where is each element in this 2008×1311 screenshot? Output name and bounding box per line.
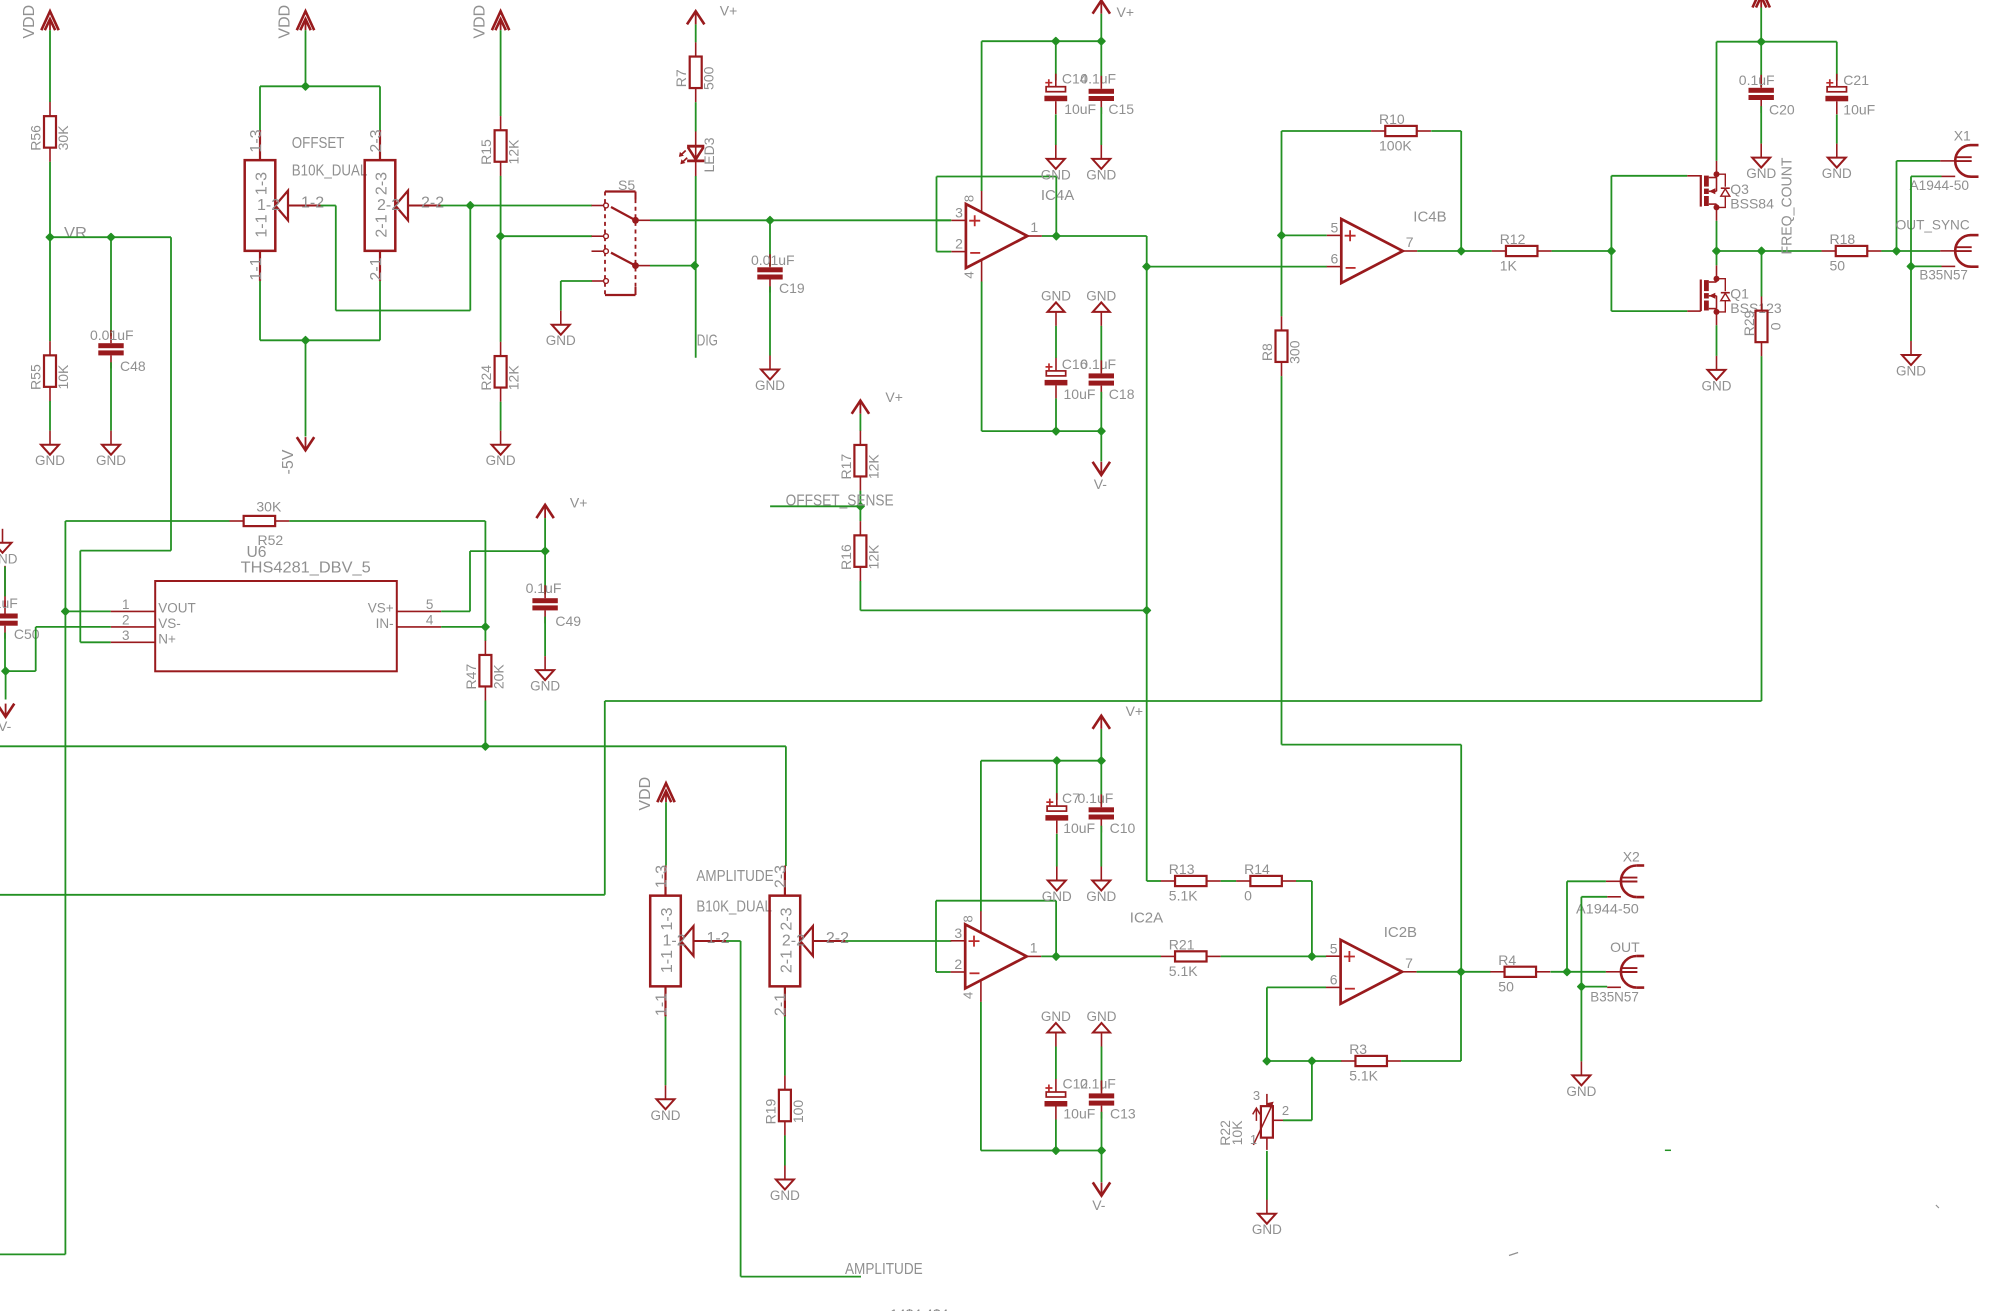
name label C13 <box>1110 1105 1136 1121</box>
part label B10K_DUAL (offset) <box>292 163 368 180</box>
part label A1944-50 (X2) <box>1576 901 1639 917</box>
wire output down to pin6 level <box>1146 236 1148 267</box>
svg-text:AMPLITUDE: AMPLITUDE <box>845 1261 923 1278</box>
resistor R47 20K <box>463 641 507 701</box>
svg-text:1-2: 1-2 <box>301 195 324 212</box>
svg-text:V+: V+ <box>1126 703 1144 719</box>
capacitor C19 0.01uF <box>757 254 782 292</box>
svg-text:30K: 30K <box>55 125 71 151</box>
junction X2 shields <box>1578 983 1585 990</box>
svg-text:R4: R4 <box>1498 952 1516 968</box>
wire to IC4B pin6 <box>1147 266 1327 268</box>
ground below C7 <box>1042 867 1072 905</box>
svg-text:1-3: 1-3 <box>659 907 676 930</box>
resistor R10 100K <box>1371 111 1431 154</box>
svg-text:DIG: DIG <box>697 333 718 350</box>
net label VR <box>64 225 87 242</box>
junction MOSFET gates <box>1608 247 1615 254</box>
svg-text:30K: 30K <box>256 499 282 515</box>
svg-text:2: 2 <box>955 236 963 252</box>
wire X2 lower shield <box>1581 986 1607 988</box>
wire R52 right <box>289 521 485 627</box>
svg-text:GND: GND <box>1896 364 1926 379</box>
wire C15 top <box>1100 41 1102 82</box>
wire IC4A pin4 down <box>982 282 1102 432</box>
svg-text:V+: V+ <box>885 389 903 405</box>
value label 0.01uF (C48) <box>90 327 134 343</box>
wire Q1 source to GND <box>1716 325 1718 356</box>
wire R47 to rail <box>484 701 486 747</box>
svg-text:GND: GND <box>0 551 18 566</box>
wire R10 to output column <box>1431 131 1461 251</box>
wire rail to pot2 top <box>379 86 381 130</box>
svg-text:R55: R55 <box>28 364 44 390</box>
svg-text:OFFSET_SENSE: OFFSET_SENSE <box>786 493 894 510</box>
resistor R12 1K <box>1492 231 1552 274</box>
svg-text:R8: R8 <box>1259 343 1275 361</box>
wire IC4A output <box>1042 235 1147 237</box>
wire S5 pole1 to IC4A pin3 <box>650 219 951 221</box>
part label B10K_DUAL (amplitude) <box>696 899 772 916</box>
wire VR node to C48 and right <box>50 236 171 238</box>
net label OUT <box>1610 939 1640 955</box>
junction VDD rail <box>1758 38 1765 45</box>
name label C18 <box>1109 386 1135 402</box>
part label A1944-50 (X1) <box>1910 177 1970 193</box>
svg-text:2-2: 2-2 <box>421 195 444 212</box>
svg-text:GND: GND <box>486 453 516 468</box>
wire sense to R16 <box>859 506 861 521</box>
wire U6 VS+ to V+ node <box>441 551 545 611</box>
svg-text:7: 7 <box>1406 234 1414 250</box>
wire pot2 bottom to R19 <box>784 1016 786 1075</box>
wire node to R29 node <box>1717 250 1762 252</box>
svg-text:R16: R16 <box>838 544 854 570</box>
svg-text:GND: GND <box>1702 378 1732 393</box>
resistor R7 500 <box>673 42 717 102</box>
svg-text:12K: 12K <box>506 139 522 165</box>
value label 0.1uF (C18) <box>1080 356 1116 372</box>
svg-text:X1: X1 <box>1954 128 1971 144</box>
IC U6 THS4281_DBV_5 <box>111 544 441 671</box>
svg-text:GND: GND <box>1087 1009 1117 1024</box>
connector X1 lower jack <box>1940 235 1978 267</box>
svg-text:6: 6 <box>1330 971 1338 987</box>
svg-text:GND: GND <box>1042 889 1072 904</box>
wire rail to V- <box>1100 431 1102 461</box>
svg-text:5.1K: 5.1K <box>1169 888 1198 904</box>
svg-text:Q1: Q1 <box>1730 285 1749 301</box>
wire IC2B pin6 <box>1267 986 1326 988</box>
wire node to Q1 drain <box>1716 251 1718 265</box>
svg-text:12K: 12K <box>506 365 522 391</box>
transistor Q3 BSS84 (P-MOSFET) <box>1687 161 1774 221</box>
svg-text:12K: 12K <box>865 454 881 480</box>
capacitor C10 0.1uF <box>1089 794 1114 832</box>
wire C20 to GND <box>1760 106 1762 143</box>
artifact green dash <box>1665 1149 1671 1151</box>
name label C14 <box>1062 70 1088 86</box>
svg-text:8: 8 <box>961 915 976 922</box>
svg-text:GND: GND <box>96 453 126 468</box>
wire node to R18 <box>1762 250 1822 252</box>
connector X2 lower jack (OUT) <box>1606 956 1644 988</box>
ground below C15 <box>1086 145 1116 183</box>
svg-text:C15: C15 <box>1108 101 1134 117</box>
svg-text:R10: R10 <box>1379 111 1405 127</box>
junction IC4B pin5 / R8 / R10 <box>1278 232 1285 239</box>
wire output to R12 <box>1461 250 1492 252</box>
svg-text:V+: V+ <box>570 495 588 511</box>
ground below R55 <box>35 431 65 469</box>
net label AMPLITUDE (pots) <box>696 868 773 885</box>
svg-text:C13: C13 <box>1110 1105 1136 1121</box>
svg-text:1: 1 <box>1030 219 1038 235</box>
wire X1 upper shield <box>1911 175 1942 177</box>
svg-text:GND: GND <box>1746 166 1776 181</box>
wire C15 to GND <box>1100 107 1102 145</box>
wire V+ stem <box>1100 14 1102 42</box>
wire VDD rail <box>1717 41 1837 43</box>
wire rail to pot1 top <box>259 86 261 130</box>
ground below C21 <box>1822 144 1852 182</box>
capacitor C48 0.01uF <box>98 330 123 368</box>
junction X1 shields <box>1907 263 1914 270</box>
name label C19 <box>779 280 805 296</box>
svg-text:VR: VR <box>64 225 87 242</box>
wire C13 to rail <box>1101 1112 1103 1151</box>
wire IC2A V+ rail <box>981 760 1101 762</box>
name label C10 <box>1110 820 1136 836</box>
wire C18 to rail <box>1100 392 1102 431</box>
svg-text:10uF: 10uF <box>1843 102 1875 118</box>
wire R7 to LED3 <box>695 102 697 131</box>
svg-text:GND: GND <box>1252 1222 1282 1237</box>
svg-text:THS4281_DBV_5: THS4281_DBV_5 <box>241 559 371 576</box>
power V- arrow (IC4A) <box>1093 462 1110 492</box>
junction MOSFET output node <box>1713 247 1720 254</box>
net label OFFSET_SENSE <box>786 493 894 510</box>
svg-text:R47: R47 <box>463 664 479 690</box>
svg-text:1-2: 1-2 <box>663 932 686 949</box>
svg-text:5: 5 <box>1330 940 1338 956</box>
wire gnd to C16 <box>1055 326 1057 358</box>
svg-text:GND: GND <box>770 1188 800 1203</box>
wire R13 to R14 <box>1221 880 1237 882</box>
svg-text:R56: R56 <box>28 125 44 151</box>
ground below X2 <box>1566 1061 1596 1099</box>
resistor R3 5.1K <box>1341 1041 1401 1084</box>
svg-text:BSS84: BSS84 <box>1730 196 1774 212</box>
svg-text:A1944-50: A1944-50 <box>1576 901 1639 917</box>
artifact cut text bottom <box>890 1306 949 1311</box>
wire Q3 source to node <box>1716 221 1718 251</box>
svg-text:GND: GND <box>530 679 560 694</box>
svg-text:50: 50 <box>1830 258 1846 274</box>
svg-text:GND: GND <box>1086 167 1116 182</box>
value label 0.1uF (C10) <box>1078 790 1114 806</box>
wire R10 loop up <box>1282 131 1372 235</box>
svg-text:1-1: 1-1 <box>248 257 265 280</box>
wire X1 shield to GND <box>1910 266 1912 341</box>
op-amp IC4A <box>951 187 1074 282</box>
junction IC4A output <box>1053 232 1060 239</box>
wire R8 bottom long L <box>1282 376 1462 972</box>
junction offset pots top rail <box>302 83 309 90</box>
svg-text:100K: 100K <box>1379 138 1412 154</box>
junction V+/C49 <box>541 547 548 554</box>
wire VR to R55 <box>49 237 51 341</box>
junction at R29 <box>1758 247 1765 254</box>
wire junction down to R8 <box>1281 235 1283 316</box>
wire gnd to C18 <box>1100 326 1102 370</box>
svg-text:2: 2 <box>1282 1103 1289 1118</box>
svg-text:C48: C48 <box>120 358 146 374</box>
wire X1 lower shield <box>1911 265 1942 267</box>
svg-text:V-: V- <box>1094 476 1108 492</box>
wire R4 to X2 <box>1551 971 1606 973</box>
name label C50 <box>14 626 40 642</box>
wire VDD to R56 <box>49 30 51 102</box>
svg-text:3: 3 <box>1253 1088 1260 1103</box>
resistor R29 0 <box>1741 296 1784 356</box>
svg-text:1-2: 1-2 <box>707 930 730 947</box>
capacitor C16 10uF (polarized) <box>1045 358 1068 399</box>
net label FREQ_COUNT <box>1779 158 1796 255</box>
svg-text:Q3: Q3 <box>1730 181 1749 197</box>
wire node to R47 <box>484 627 486 641</box>
wire C10 top <box>1100 761 1102 805</box>
svg-text:B10K_DUAL: B10K_DUAL <box>292 163 368 180</box>
wire X2 shield to GND <box>1580 987 1582 1062</box>
svg-text:5: 5 <box>1331 220 1339 236</box>
resistor R17 12K <box>838 431 882 491</box>
name label C7 <box>1062 790 1080 806</box>
junction node VR at R56 <box>46 234 53 241</box>
svg-text:GND: GND <box>546 333 576 348</box>
svg-text:R17: R17 <box>838 454 854 480</box>
name label C48 <box>120 358 146 374</box>
transistor Q1 BSS123 (N-MOSFET) <box>1687 265 1782 325</box>
ground below Q1 <box>1702 356 1732 394</box>
svg-text:2-1: 2-1 <box>374 214 391 237</box>
name label C16 <box>1062 356 1088 372</box>
value label 0.1uF (C50) <box>0 595 18 611</box>
svg-text:0.1uF: 0.1uF <box>1080 356 1116 372</box>
ground above C18 (inverted) <box>1086 288 1116 326</box>
ground below C49 <box>530 656 560 694</box>
capacitor C20 0.1uF <box>1749 75 1774 113</box>
svg-text:7: 7 <box>1405 955 1413 971</box>
svg-text:R3: R3 <box>1349 1041 1367 1057</box>
svg-text:FREQ_COUNT: FREQ_COUNT <box>1779 158 1796 255</box>
svg-text:C18: C18 <box>1109 386 1135 402</box>
svg-text:10uF: 10uF <box>1063 820 1095 836</box>
svg-text:0.1uF: 0.1uF <box>1739 72 1775 88</box>
junction offset sense column <box>1143 607 1150 614</box>
ground above C12 (inverted) <box>1041 1009 1071 1047</box>
resistor R19 100 <box>762 1076 806 1136</box>
wire rail to IC2A pin8 <box>980 761 982 912</box>
wire node to C49 <box>544 551 546 594</box>
wire R55 to GND <box>49 401 51 431</box>
svg-text:VDD: VDD <box>472 5 489 39</box>
wire C19 to GND <box>769 286 771 355</box>
name label C12 <box>1063 1075 1089 1091</box>
ground below R22 <box>1252 1200 1282 1238</box>
wire junction to R24 <box>500 236 502 342</box>
junction U6 IN- / R47 <box>482 623 489 630</box>
svg-text:10uF: 10uF <box>1063 1105 1095 1121</box>
svg-text:C49: C49 <box>555 613 581 629</box>
wire V+ stem <box>1100 729 1102 761</box>
junction V- rail at C16 <box>1052 427 1059 434</box>
wire IC4A V+ rail <box>982 40 1102 42</box>
potentiometer OFFSET unit 2 (B10K_DUAL) <box>365 129 445 281</box>
ground below X1 <box>1896 341 1926 379</box>
wire R21 to pin5 <box>1221 955 1327 957</box>
wire R15 to junction <box>500 176 502 236</box>
net label OFFSET <box>292 135 345 152</box>
artifact gray tick 2 <box>1509 1253 1518 1256</box>
svg-text:C21: C21 <box>1843 72 1869 88</box>
value label 0.1uF (C15) <box>1080 70 1116 86</box>
svg-text:0.1uF: 0.1uF <box>1080 70 1116 86</box>
junction X1 center <box>1893 247 1900 254</box>
svg-text:R12: R12 <box>1500 231 1526 247</box>
artifact gray tick 1 <box>1936 1205 1939 1208</box>
ground above C13 (inverted) <box>1087 1009 1117 1047</box>
resistor R16 12K <box>838 521 882 581</box>
wire pot1 bottom to GND <box>665 1016 667 1085</box>
wire gnd to C13 <box>1101 1047 1103 1091</box>
wire pot2 wiper to IC2A pin3 <box>845 940 951 942</box>
wire IC2A output <box>1041 955 1161 957</box>
svg-text:GND: GND <box>1822 166 1852 181</box>
wire VOUT node down to bottom-left <box>0 611 65 1254</box>
svg-text:A1944-50: A1944-50 <box>1910 177 1970 193</box>
resistor R4 50 <box>1490 952 1550 995</box>
junction R14/R21 to IC2B pin5 <box>1308 953 1315 960</box>
switch S5 (DPDT slide) <box>592 177 651 295</box>
wire Q1 gate <box>1611 310 1687 312</box>
svg-text:10uF: 10uF <box>1064 101 1096 117</box>
svg-text:VOUT: VOUT <box>158 601 196 616</box>
ground at S5 <box>546 311 576 349</box>
svg-text:2-1: 2-1 <box>773 993 790 1016</box>
junction V- rail at C12 <box>1052 1147 1059 1154</box>
wire R14 to pin5 corner <box>1296 881 1312 956</box>
name label C49 <box>555 613 581 629</box>
svg-text:1-2: 1-2 <box>257 197 280 214</box>
svg-text:V-: V- <box>0 718 12 734</box>
wire C16 to rail <box>1055 398 1057 431</box>
junction offset wipers <box>467 202 474 209</box>
svg-text:14$4 4$4: 14$4 4$4 <box>890 1306 949 1311</box>
net label DIG <box>697 333 718 350</box>
svg-text:VDD: VDD <box>637 777 654 811</box>
wire R52 left <box>65 521 229 611</box>
power V+ arrow (IC2A rail) <box>1093 703 1144 729</box>
trimmer R22 10K <box>1217 1088 1289 1150</box>
svg-text:GND: GND <box>1566 1084 1596 1099</box>
resistor R15 12K <box>478 116 521 176</box>
svg-text:4: 4 <box>961 271 976 278</box>
name label X2 <box>1623 849 1640 865</box>
svg-text:C19: C19 <box>779 280 805 296</box>
junction C50/V- <box>2 667 9 674</box>
junction rail at C7 <box>1053 757 1060 764</box>
junction OFFSET_SENSE <box>857 503 864 510</box>
wire C50 bottom <box>4 633 6 672</box>
svg-text:2-3: 2-3 <box>778 907 795 930</box>
wire bottom rail to -5V <box>305 340 307 436</box>
wire pin6 down to R3 node <box>1266 987 1268 1061</box>
wire pot1 bottom to rail <box>260 281 380 340</box>
svg-text:R19: R19 <box>762 1098 778 1124</box>
wire C48 top <box>110 237 112 336</box>
name label X1 <box>1954 128 1971 144</box>
svg-text:10uF: 10uF <box>1064 386 1096 402</box>
junction VR at C48 <box>107 234 114 241</box>
long rail V+ distribution (y=746) <box>0 745 786 747</box>
part label B35N57 (X1) <box>1919 267 1968 283</box>
svg-text:0: 0 <box>1768 322 1784 330</box>
wire V- to U6 VS- <box>6 627 111 671</box>
svg-text:1-1: 1-1 <box>653 993 670 1016</box>
wire R17 to sense node <box>859 491 861 507</box>
svg-text:B35N57: B35N57 <box>1590 989 1639 1005</box>
junction rail at C10/V+ <box>1098 757 1105 764</box>
svg-text:IC4B: IC4B <box>1413 208 1446 225</box>
wire pot1 wiper down to AMPLITUDE net <box>726 941 861 1277</box>
svg-text:R15: R15 <box>478 139 494 165</box>
resistor R56 30K <box>28 102 72 162</box>
junction V- rail at C13 <box>1098 1147 1105 1154</box>
wire X1 sync riser <box>1897 161 1941 251</box>
svg-text:3: 3 <box>954 925 962 941</box>
wire C7 to GND <box>1056 834 1058 867</box>
junction offset pots bottom rail <box>302 337 309 344</box>
ground above C50 (partial) <box>0 529 18 567</box>
resistor R13 5.1K <box>1161 861 1221 904</box>
svg-text:2-3: 2-3 <box>374 172 391 195</box>
wire gates riser <box>1610 176 1612 311</box>
svg-text:R7: R7 <box>673 69 689 87</box>
wire pot2 wiper to junction <box>441 205 471 207</box>
svg-text:2: 2 <box>954 956 962 972</box>
capacitor C15 0.1uF <box>1089 76 1114 114</box>
ground below C48 <box>96 431 126 469</box>
junction IC4B output <box>1458 247 1465 254</box>
svg-text:0.1uF: 0.1uF <box>1078 790 1114 806</box>
svg-text:20K: 20K <box>490 664 506 690</box>
value label 10uF (C12) <box>1063 1105 1095 1121</box>
svg-text:0.1uF: 0.1uF <box>0 595 18 611</box>
power V+ arrow (C49) <box>536 495 587 519</box>
capacitor C50 0.1uF (partial) <box>0 601 18 639</box>
svg-text:VDD: VDD <box>21 5 38 39</box>
wire R3 stub <box>1312 1060 1342 1062</box>
wire rail to IC4A pin8 <box>981 41 983 191</box>
svg-text:1-3: 1-3 <box>248 129 265 152</box>
wire C7 top <box>1056 761 1058 800</box>
svg-text:VS+: VS+ <box>368 601 394 616</box>
svg-text:2-2: 2-2 <box>826 930 849 947</box>
net label AMPLITUDE (bottom) <box>845 1261 923 1278</box>
junction R47 bottom rail <box>482 743 489 750</box>
potentiometer AMPLITUDE unit 1 <box>650 865 730 1017</box>
